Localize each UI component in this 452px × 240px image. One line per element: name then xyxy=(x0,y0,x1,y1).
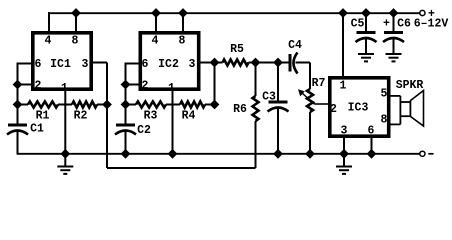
wire C5 top lead xyxy=(365,13,367,32)
wire R4 to node xyxy=(205,104,215,106)
wire C3 bottom lead xyxy=(277,107,279,154)
wire C2 bottom lead xyxy=(125,130,127,154)
svg-text:8: 8 xyxy=(72,35,79,48)
bottom rail xyxy=(18,153,420,155)
wire pin5 jog down xyxy=(399,96,401,103)
junction IC2 pin3 node xyxy=(210,58,218,66)
wire IC2 pin2 stub xyxy=(126,84,140,86)
svg-text:5: 5 xyxy=(381,88,388,101)
wire to C3 node xyxy=(256,62,279,64)
wire IC3 pin5 stub xyxy=(388,95,400,97)
wire IC2 pins 2-6 tie down to C2 xyxy=(125,63,127,125)
label minus terminal dash xyxy=(428,153,433,155)
capacitor C3 xyxy=(269,101,288,104)
wire IC1 pin6 stub xyxy=(18,63,33,65)
svg-text:1: 1 xyxy=(340,80,347,93)
op IC2 box xyxy=(140,33,198,89)
ground under C5 xyxy=(358,53,374,55)
resistor R6 xyxy=(253,96,259,121)
svg-text:R7: R7 xyxy=(312,77,326,90)
svg-text:C4: C4 xyxy=(288,39,302,52)
junction IC3 pin3 on rail xyxy=(340,150,348,158)
svg-text:C2: C2 xyxy=(137,124,151,137)
wire IC2 pin4 riser xyxy=(155,13,157,33)
wire IC2 pin3 stub xyxy=(199,62,215,64)
wire R6 top lead xyxy=(255,63,257,97)
wire C5 bottom lead xyxy=(365,38,367,55)
speaker SPKR cone xyxy=(411,91,424,127)
junction on rail at C5 xyxy=(362,9,370,17)
svg-text:8: 8 xyxy=(179,35,186,48)
resistor R4 xyxy=(180,102,205,108)
capacitor C1 xyxy=(8,124,27,127)
svg-text:3: 3 xyxy=(82,58,89,71)
wire ground stub IC3 xyxy=(343,154,345,167)
terminal + supply xyxy=(420,10,425,15)
junction on rail at IC3 pin1 xyxy=(339,9,347,17)
wire IC3 pin3 drop xyxy=(343,136,345,154)
junction R4 right / IC2 pin3 net xyxy=(210,100,218,108)
capacitor C5 xyxy=(357,31,376,34)
junction IC1 pin2 node xyxy=(13,80,21,88)
ground under C6 xyxy=(386,53,402,55)
junction R7 on bottom rail xyxy=(306,150,314,158)
junction C2 on bottom rail xyxy=(121,150,129,158)
svg-text:IC1: IC1 xyxy=(50,58,71,71)
svg-text:6: 6 xyxy=(368,125,375,138)
svg-text:R4: R4 xyxy=(182,110,196,123)
wire IC2 pin8 riser xyxy=(182,13,184,33)
junction on rail at IC1 pin8 xyxy=(72,9,80,17)
wire R7 bottom lead xyxy=(309,112,311,154)
op IC3 box xyxy=(330,78,389,136)
wire to R1 xyxy=(18,104,29,106)
junction IC3 pin6 on rail xyxy=(367,150,375,158)
wire C6 top lead xyxy=(393,13,395,32)
svg-text:C1: C1 xyxy=(30,123,44,136)
junction on rail at IC2 pin8 xyxy=(179,9,187,17)
junction on rail at IC2 pin4 xyxy=(152,9,160,17)
svg-text:3: 3 xyxy=(189,58,196,71)
wire C3 top lead xyxy=(277,63,279,102)
wire IC2 pin1 drop xyxy=(172,89,174,154)
svg-text:6: 6 xyxy=(35,58,42,71)
wire IC1 pins 2-6 tie down to C1 xyxy=(17,63,19,125)
wire to C4 xyxy=(278,62,289,64)
svg-text:C6: C6 xyxy=(397,18,411,31)
wire R5 right xyxy=(249,62,256,64)
svg-text:8: 8 xyxy=(381,114,388,127)
wire IC1 pin3 stub xyxy=(91,62,107,64)
resistor R1 xyxy=(28,102,58,108)
resistor R3 xyxy=(136,102,166,108)
svg-text:4: 4 xyxy=(45,35,52,48)
junction node R3 left / C2 xyxy=(121,100,129,108)
svg-text:R1: R1 xyxy=(36,110,50,123)
svg-text:IC3: IC3 xyxy=(348,102,369,115)
speaker SPKR driver xyxy=(400,102,410,116)
wire pin8 jog up xyxy=(399,116,401,125)
junction IC2 pin2 node xyxy=(121,80,129,88)
top rail xyxy=(49,12,420,14)
junction IC2 pin1 on bottom rail xyxy=(168,150,176,158)
svg-text:IC2: IC2 xyxy=(158,58,179,71)
wire IC3 pin1 riser xyxy=(342,13,344,77)
svg-text:6: 6 xyxy=(142,58,149,71)
wire R7 top lead xyxy=(309,63,311,90)
wire IC1 pin1 drop xyxy=(64,89,66,154)
svg-text:4: 4 xyxy=(152,35,159,48)
wire ground stub IC1 xyxy=(64,154,66,167)
svg-text:+: + xyxy=(428,8,435,21)
wire IC1 pin8 riser xyxy=(75,13,77,33)
wire C4 to R7 xyxy=(296,62,311,64)
junction on rail at C6 xyxy=(389,9,397,17)
wire IC1 pin2 stub xyxy=(18,84,33,86)
wire C6 bottom lead xyxy=(393,38,395,55)
svg-text:2: 2 xyxy=(35,80,42,93)
wire up to R6 bottom xyxy=(255,121,257,168)
terminal - supply xyxy=(420,151,425,156)
wire to R3 xyxy=(126,104,137,106)
capacitor C2 xyxy=(116,124,135,127)
wire IC3 pin6 drop xyxy=(371,136,373,154)
wire IC3 pin2 to R7 wiper xyxy=(315,103,329,105)
wire IC1 pin4 riser xyxy=(48,12,50,33)
op IC1 box xyxy=(33,33,91,89)
junction R5 / R6 top xyxy=(251,58,259,66)
wire R1 to R2 xyxy=(58,104,72,106)
ground near IC3 xyxy=(336,166,352,168)
junction pin1 on bottom rail xyxy=(61,150,69,158)
svg-text:C3: C3 xyxy=(262,91,276,104)
wire C1 bottom lead xyxy=(17,130,19,155)
R7 wiper arrow xyxy=(298,89,315,104)
junction node R1 left / C1 xyxy=(13,100,21,108)
wire IC1 pin3 vertical down xyxy=(106,63,108,169)
capacitor C6 xyxy=(384,31,403,34)
resistor R5 xyxy=(223,60,249,66)
svg-text:2: 2 xyxy=(142,80,149,93)
svg-text:R3: R3 xyxy=(144,110,158,123)
wire lower route to R6 xyxy=(107,167,256,169)
wire IC2 pin6 stub xyxy=(126,63,140,65)
resistor R2 xyxy=(72,102,97,108)
svg-text:3: 3 xyxy=(341,125,348,138)
svg-text:SPKR: SPKR xyxy=(396,79,424,92)
wire IC3 pin8 stub xyxy=(388,123,400,125)
svg-text:R2: R2 xyxy=(74,110,88,123)
wire to R5 xyxy=(215,62,223,64)
trimmer R7 xyxy=(307,89,313,112)
ground under IC1 xyxy=(57,166,73,168)
junction R2 right / IC1 pin3 net xyxy=(103,100,111,108)
svg-text:R6: R6 xyxy=(233,103,247,116)
capacitor C4 xyxy=(289,54,292,72)
wire pin3 node down to R4 xyxy=(214,63,216,105)
svg-text:+: + xyxy=(383,18,390,31)
junction C3 top xyxy=(274,58,282,66)
wire R3 to R4 xyxy=(166,104,180,106)
wire R2 to node xyxy=(97,104,107,106)
svg-text:2: 2 xyxy=(330,103,337,116)
svg-text:R5: R5 xyxy=(230,43,244,56)
junction C3 on bottom rail xyxy=(274,150,282,158)
svg-text:C5: C5 xyxy=(351,18,365,31)
